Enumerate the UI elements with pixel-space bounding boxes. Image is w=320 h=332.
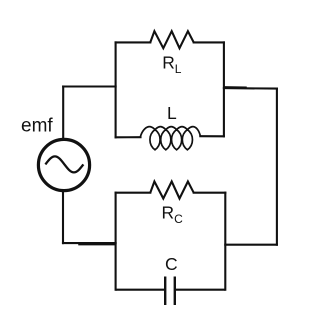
wire right rail top tap overlap segment — [224, 86, 246, 88]
wire emf bottom tap horizontal — [63, 242, 116, 244]
wire left edge of bottom loop — [115, 193, 117, 290]
wire bottom loop upper-right segment — [194, 192, 226, 194]
svg-text:emf: emf — [21, 115, 53, 136]
wire right rail vertical — [276, 89, 278, 245]
wire inductor left lead — [116, 136, 141, 138]
wire bottom loop upper-left segment — [116, 192, 151, 194]
label RL — [162, 53, 182, 77]
wire capacitor right lead — [175, 289, 226, 291]
wire top loop upper-right segment — [194, 41, 224, 43]
wire emf bottom tap horizontal overlap segment — [79, 244, 116, 246]
wire emf top vertical — [62, 87, 64, 140]
svg-text:L: L — [167, 103, 177, 123]
resistor RC — [150, 182, 193, 199]
wire emf bottom vertical — [62, 190, 64, 243]
wire right edge of bottom loop — [224, 193, 226, 290]
capacitor C1 — [165, 277, 175, 306]
wire right rail bottom tap — [225, 244, 277, 246]
resistor RL — [150, 31, 193, 48]
label L — [167, 103, 177, 123]
svg-text:C: C — [165, 254, 178, 274]
wire top loop upper-left segment — [116, 41, 151, 43]
inductor L1 — [140, 127, 200, 150]
ac source emf — [38, 139, 89, 190]
wire inductor right lead — [200, 135, 224, 137]
wire right rail top tap — [224, 87, 277, 90]
wire emf top tap horizontal — [63, 85, 115, 87]
label C — [165, 254, 178, 274]
wire capacitor left lead — [116, 289, 166, 291]
wire right edge of top loop — [223, 42, 225, 136]
label RC — [162, 203, 184, 227]
label emf — [21, 115, 53, 136]
wire left edge of top loop — [115, 42, 117, 137]
